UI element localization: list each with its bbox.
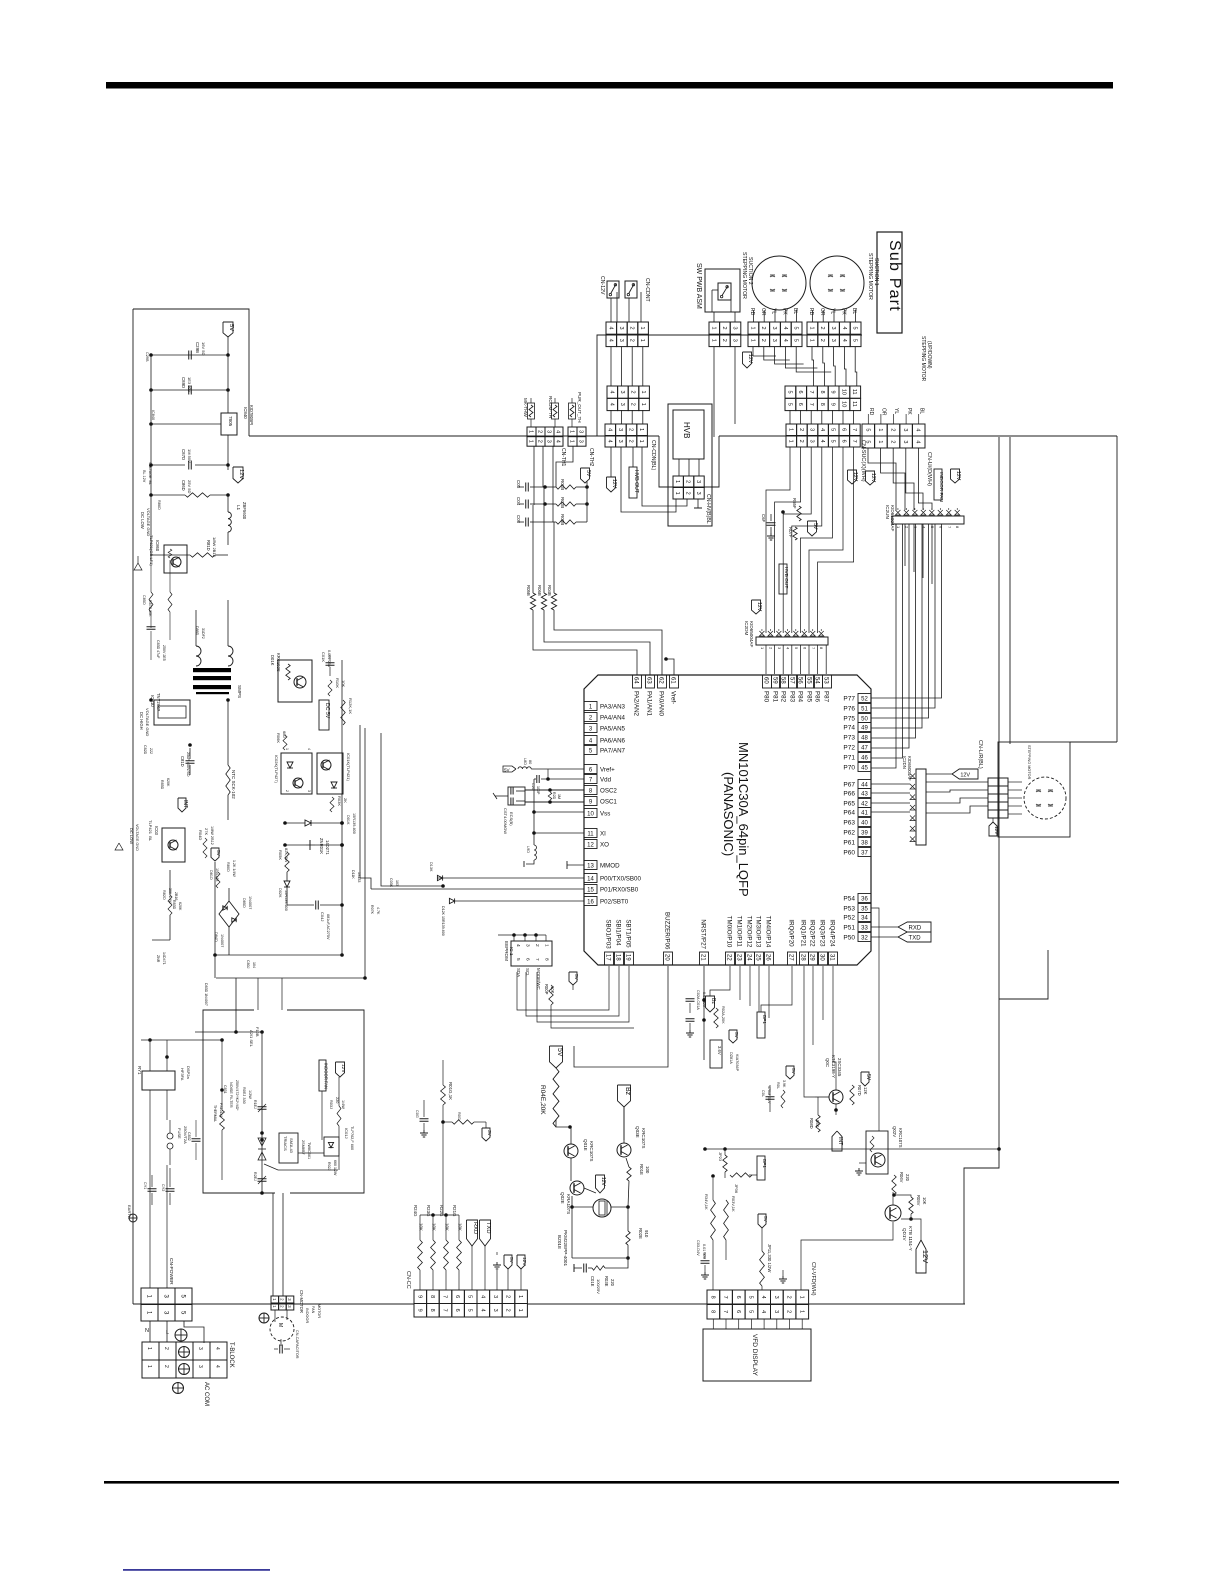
label CN-SUC xyxy=(860,440,866,482)
flag 5V cc xyxy=(504,1255,514,1290)
flag 12V ps xyxy=(233,467,244,483)
svg-text:R83D: R83D xyxy=(172,900,176,910)
switch CN-CDNT xyxy=(625,281,637,298)
svg-text:CY1: CY1 xyxy=(143,1182,147,1189)
svg-text:VOLTAGE GND: VOLTAGE GND xyxy=(146,508,151,536)
svg-text:12V: 12V xyxy=(340,1064,346,1073)
svg-text:DC HIGH: DC HIGH xyxy=(139,712,144,730)
svg-text:2: 2 xyxy=(760,339,766,342)
svg-text:2: 2 xyxy=(537,440,543,443)
res R05V xyxy=(909,1195,927,1214)
wires P6x to CN-LR xyxy=(871,782,988,813)
optocoupler IC03 xyxy=(148,820,185,862)
wire bottom long2 xyxy=(527,1303,965,1305)
svg-text:14D471: 14D471 xyxy=(162,952,166,965)
svg-text:C80J: C80J xyxy=(246,960,250,969)
svg-text:7: 7 xyxy=(442,1309,448,1312)
label CN-TH1 xyxy=(560,448,566,467)
resonator X1 xyxy=(493,787,525,834)
svg-text:ZBF5600: ZBF5600 xyxy=(242,502,247,520)
svg-text:R01E: R01E xyxy=(639,1164,644,1175)
diode D13K xyxy=(429,862,443,881)
svg-text:5V: 5V xyxy=(812,523,818,530)
svg-text:TRIACS: TRIACS xyxy=(283,1136,288,1151)
transistor Q01E xyxy=(564,1139,594,1161)
wires bottom pins xyxy=(740,966,823,1045)
connector CN-LR 5pin xyxy=(988,778,1008,818)
svg-text:A2/1 SEL: A2/1 SEL xyxy=(249,1030,254,1048)
svg-text:CN-MOTOR: CN-MOTOR xyxy=(299,1290,304,1313)
svg-text:3: 3 xyxy=(617,440,623,443)
svg-text:PA1/AN1: PA1/AN1 xyxy=(646,691,653,717)
svg-text:DC LOW: DC LOW xyxy=(129,828,134,844)
res R12K xyxy=(341,698,353,725)
op-amp U1 MCU MN101C30A body xyxy=(584,675,871,965)
svg-text:R2EJ: R2EJ xyxy=(253,1172,257,1181)
resistor bank R2xG xyxy=(413,1205,463,1290)
svg-text:IC2DN: IC2DN xyxy=(902,756,907,769)
svg-text:R04E,20K: R04E,20K xyxy=(539,1085,546,1115)
svg-text:TXD: TXD xyxy=(485,1222,491,1234)
svg-text:27: 27 xyxy=(788,954,794,961)
res R34V xyxy=(704,1178,715,1290)
wire triac opto xyxy=(298,1153,339,1170)
svg-text:3: 3 xyxy=(546,430,552,433)
svg-text:SW PWB ASM: SW PWB ASM xyxy=(695,263,702,309)
svg-text:54: 54 xyxy=(814,677,820,684)
svg-text:10: 10 xyxy=(587,812,594,818)
svg-text:SUCTION 2: SUCTION 2 xyxy=(747,257,753,285)
svg-text:11: 11 xyxy=(587,832,594,838)
svg-text:D12K 15R139-600: D12K 15R139-600 xyxy=(441,906,445,936)
svg-text:680: 680 xyxy=(282,731,287,738)
svg-text:R03V,1K: R03V,1K xyxy=(731,1196,736,1212)
svg-text:CN-POWER: CN-POWER xyxy=(168,1258,174,1285)
svg-text:47: 47 xyxy=(861,746,868,752)
svg-text:CN-CAPACITOR: CN-CAPACITOR xyxy=(295,1330,299,1359)
svg-text:4: 4 xyxy=(479,1295,485,1298)
svg-text:7: 7 xyxy=(808,403,814,406)
svg-text:1: 1 xyxy=(710,339,716,342)
MCU bottom pins 17-31 xyxy=(605,912,838,965)
svg-text:OR: OR xyxy=(881,408,887,416)
svg-text:12V: 12V xyxy=(852,472,858,482)
svg-text:IC02K(TLP427): IC02K(TLP427) xyxy=(274,755,279,783)
res R01G xyxy=(441,1060,453,1215)
svg-text:4: 4 xyxy=(307,748,311,750)
svg-text:R06K: R06K xyxy=(276,733,281,743)
svg-text:TXD: TXD xyxy=(909,935,922,941)
svg-text:100: 100 xyxy=(645,1166,650,1174)
svg-text:VOLTAGE GND: VOLTAGE GND xyxy=(145,708,150,736)
svg-text:DSP2a: DSP2a xyxy=(186,1066,191,1079)
svg-text:1: 1 xyxy=(808,327,814,330)
transformer SMPS xyxy=(193,600,242,698)
svg-text:P73: P73 xyxy=(843,735,855,742)
svg-text:38: 38 xyxy=(861,841,868,847)
svg-text:VOLTAGE GND: VOLTAGE GND xyxy=(135,824,139,851)
wire pin31 q0c xyxy=(833,966,836,1075)
svg-text:P52: P52 xyxy=(843,915,855,922)
svg-text:CN-VFD(WH): CN-VFD(WH) xyxy=(810,1262,816,1296)
cap C0G xyxy=(415,1100,429,1137)
resistor R82D xyxy=(162,888,178,915)
svg-text:3V: 3V xyxy=(486,1130,492,1137)
svg-text:FUSE: FUSE xyxy=(177,1128,182,1139)
connector CN-VFD xyxy=(707,1290,809,1319)
svg-text:PK: PK xyxy=(906,408,912,415)
svg-text:BL: BL xyxy=(792,308,798,314)
svg-text:1M 50V: 1M 50V xyxy=(187,449,192,463)
svg-text:R04B: R04B xyxy=(547,585,552,596)
earth terminals xyxy=(173,1329,190,1394)
svg-text:5: 5 xyxy=(747,1296,753,1299)
svg-text:5: 5 xyxy=(786,403,792,406)
svg-text:3: 3 xyxy=(197,1365,203,1368)
buzzer BZ01E xyxy=(557,1199,611,1266)
svg-text:BL: BL xyxy=(918,408,924,414)
wire pin28 q0c xyxy=(804,966,815,1097)
svg-text:R55F: R55F xyxy=(792,498,797,509)
cap C04J xyxy=(287,901,342,941)
wire right frame xyxy=(1070,741,1117,743)
wires acin xyxy=(150,1040,167,1288)
svg-text:37: 37 xyxy=(861,851,868,857)
flag 5V nrst xyxy=(729,1030,739,1043)
svg-text:5V: 5V xyxy=(585,470,591,477)
svg-text:5V: 5V xyxy=(504,768,511,773)
svg-text:HVB OUT: HVB OUT xyxy=(783,567,789,588)
res R05K xyxy=(278,848,289,872)
dots vfd xyxy=(703,1147,1001,1151)
driver IC2UN KID65004AF xyxy=(892,508,964,529)
svg-text:23: 23 xyxy=(736,954,742,961)
svg-text:4: 4 xyxy=(606,428,612,431)
svg-text:AC COM: AC COM xyxy=(203,1382,209,1406)
svg-text:TLP621(GB-LF1): TLP621(GB-LF1) xyxy=(149,535,154,566)
svg-text:NTC SCK-102: NTC SCK-102 xyxy=(231,770,236,799)
svg-text:0.001 25V: 0.001 25V xyxy=(327,650,331,668)
svg-text:STEPPING MOTOR: STEPPING MOTOR xyxy=(920,336,926,382)
stepper motor UP/DOWN circle xyxy=(1024,777,1066,819)
triac symbol xyxy=(258,1131,266,1160)
svg-text:4: 4 xyxy=(607,327,613,330)
label CN-CDN(BL) xyxy=(650,440,656,471)
svg-text:R02A,20K: R02A,20K xyxy=(721,1006,726,1024)
svg-text:7: 7 xyxy=(722,1296,728,1299)
svg-text:4: 4 xyxy=(608,391,614,394)
svg-text:P85: P85 xyxy=(806,691,813,703)
svg-text:2: 2 xyxy=(628,428,634,431)
wire pin14 xyxy=(437,877,584,879)
SW PWB ASM label xyxy=(695,263,702,309)
svg-text:4: 4 xyxy=(819,428,825,431)
wires stepper bundle xyxy=(753,347,857,386)
svg-text:660 1/2W: 660 1/2W xyxy=(333,1160,337,1176)
svg-text:IRQ0/P20: IRQ0/P20 xyxy=(788,919,795,947)
svg-text:C832: C832 xyxy=(187,1132,191,1141)
IC010 TNY264P xyxy=(150,693,190,725)
svg-text:R80D: R80D xyxy=(226,862,230,872)
svg-text:1: 1 xyxy=(517,1295,523,1298)
connector CN-SUC(X)(WH) xyxy=(786,424,860,447)
svg-text:6: 6 xyxy=(735,1296,741,1299)
svg-text:25: 25 xyxy=(755,954,761,961)
wire primary y1032 xyxy=(195,1030,264,1034)
gnd q02v xyxy=(855,1163,866,1175)
svg-text:24: 24 xyxy=(746,954,752,961)
svg-text:R07K: R07K xyxy=(370,905,374,915)
svg-text:12V: 12V xyxy=(994,826,999,835)
svg-text:8: 8 xyxy=(819,391,825,394)
fuse F801 xyxy=(167,1120,188,1165)
svg-text:27K: 27K xyxy=(204,828,209,835)
svg-text:P71: P71 xyxy=(843,755,855,762)
svg-text:TM1IO/P11: TM1IO/P11 xyxy=(736,916,743,948)
svg-text:3: 3 xyxy=(771,339,777,342)
wires regulator xyxy=(149,355,228,470)
resistor NTC xyxy=(226,700,230,820)
svg-text:SBO1/P03: SBO1/P03 xyxy=(605,919,612,949)
svg-text:PK: PK xyxy=(781,308,787,315)
flag 12V cdn xyxy=(607,477,618,492)
svg-text:KRC107S: KRC107S xyxy=(641,1128,646,1148)
wire primary rail xyxy=(260,1032,264,1195)
svg-text:C89D: C89D xyxy=(181,377,186,388)
wires 7pin join xyxy=(790,410,854,424)
svg-text:1: 1 xyxy=(674,492,680,495)
label CN-12V xyxy=(599,276,605,295)
fan motor xyxy=(259,1313,294,1341)
svg-text:F10B: F10B xyxy=(255,1027,260,1037)
res R02E xyxy=(626,1228,649,1245)
svg-text:2: 2 xyxy=(819,339,825,342)
svg-text:KRC102S: KRC102S xyxy=(276,653,281,672)
svg-text:P64: P64 xyxy=(843,810,855,817)
svg-text:Vss: Vss xyxy=(600,811,610,818)
svg-text:TLP762,F 660: TLP762,F 660 xyxy=(350,1126,354,1150)
svg-text:D01K: D01K xyxy=(270,655,275,666)
relay RY1 xyxy=(137,1066,191,1090)
svg-text:L9D: L9D xyxy=(526,846,530,853)
svg-text:DC LOW: DC LOW xyxy=(140,512,145,529)
svg-text:1: 1 xyxy=(639,339,645,342)
svg-text:15R139-600: 15R139-600 xyxy=(352,813,356,834)
svg-text:33: 33 xyxy=(861,926,868,932)
svg-text:KID65004AF: KID65004AF xyxy=(749,621,754,647)
svg-text:9: 9 xyxy=(830,403,836,406)
svg-text:2K: 2K xyxy=(343,798,348,803)
label CN-U/D xyxy=(926,452,932,486)
flag 5V jp11 xyxy=(758,1214,768,1228)
flag 12V fan xyxy=(951,469,962,483)
svg-text:8: 8 xyxy=(429,1309,435,1312)
svg-text:6: 6 xyxy=(797,391,803,394)
svg-text:CN-CDN(BL): CN-CDN(BL) xyxy=(650,440,656,471)
res R03K xyxy=(330,796,348,812)
svg-text:620K: 620K xyxy=(166,778,170,787)
flag 12V e1 xyxy=(848,470,859,484)
svg-text:NRST/P27: NRST/P27 xyxy=(700,919,707,949)
svg-text:2SC3345: 2SC3345 xyxy=(837,1058,842,1077)
svg-text:CN-CC: CN-CC xyxy=(405,1271,411,1289)
svg-text:2: 2 xyxy=(721,327,727,330)
connector CN stepper1 5pin xyxy=(807,308,861,347)
svg-text:2: 2 xyxy=(163,1347,169,1350)
svg-text:P63: P63 xyxy=(843,820,855,827)
regulator IC840 7805 xyxy=(221,405,254,435)
MCU top pins 64-53 xyxy=(633,675,832,717)
svg-text:2: 2 xyxy=(890,440,896,443)
label CN-HV(B)BL xyxy=(705,494,711,524)
svg-text:1: 1 xyxy=(569,430,575,433)
label earth xyxy=(127,1205,132,1219)
svg-text:STEPPING MOTOR: STEPPING MOTOR xyxy=(867,253,873,300)
svg-text:31: 31 xyxy=(829,954,835,961)
svg-text:48: 48 xyxy=(861,736,868,742)
svg-text:2: 2 xyxy=(630,391,636,394)
svg-text:10K: 10K xyxy=(550,986,555,994)
svg-text:D02K: D02K xyxy=(278,888,282,898)
svg-text:IRQ4/P24: IRQ4/P24 xyxy=(829,919,836,947)
svg-text:XI: XI xyxy=(600,831,606,838)
svg-text:1/8W 2B12: 1/8W 2B12 xyxy=(212,537,217,558)
svg-text:MK-THW: MK-THW xyxy=(523,398,528,418)
svg-text:9: 9 xyxy=(416,1295,422,1298)
wire xi xyxy=(534,832,584,834)
svg-text:6: 6 xyxy=(840,428,846,431)
svg-text:8: 8 xyxy=(709,1310,715,1313)
svg-text:IC2UN: IC2UN xyxy=(885,505,890,519)
svg-text:VOLTAGE BL: VOLTAGE BL xyxy=(148,462,152,485)
svg-text:R00P: R00P xyxy=(544,984,549,995)
svg-text:22: 22 xyxy=(726,954,732,961)
wire ac h1 xyxy=(141,1040,222,1180)
svg-text:5: 5 xyxy=(467,1295,473,1298)
svg-text:INT: INT xyxy=(837,1137,843,1146)
svg-text:1: 1 xyxy=(638,428,644,431)
svg-text:82K,3W: 82K,3W xyxy=(284,848,289,862)
svg-text:3: 3 xyxy=(809,440,815,443)
svg-text:2: 2 xyxy=(628,440,634,443)
svg-text:XO: XO xyxy=(600,842,609,849)
svg-text:N: N xyxy=(145,1328,149,1334)
label A21SEL xyxy=(249,1027,260,1048)
border top rule xyxy=(106,82,1113,89)
svg-text:PA2/AN2: PA2/AN2 xyxy=(633,691,640,717)
svg-text:7: 7 xyxy=(851,440,857,443)
HVB outer box xyxy=(668,404,712,526)
svg-text:56: 56 xyxy=(797,677,803,684)
svg-text:4: 4 xyxy=(782,339,788,342)
svg-text:KIA7036P: KIA7036P xyxy=(735,1054,739,1072)
connector CN-POWER xyxy=(141,1288,192,1321)
flag INT left xyxy=(178,798,188,812)
rail x534 xyxy=(532,779,536,845)
svg-text:5V: 5V xyxy=(865,1074,871,1081)
svg-text:CN-CDNT: CN-CDNT xyxy=(644,278,650,302)
svg-text:CN-TH2: CN-TH2 xyxy=(588,448,594,467)
svg-text:1S133: 1S133 xyxy=(357,872,361,882)
svg-text:1: 1 xyxy=(638,440,644,443)
svg-text:IC03: IC03 xyxy=(154,826,159,836)
svg-text:2: 2 xyxy=(685,492,691,495)
dots ac xyxy=(148,1038,224,1092)
svg-text:C04: C04 xyxy=(516,497,521,506)
svg-text:12V: 12V xyxy=(870,473,876,483)
svg-text:KTC3198-Y: KTC3198-Y xyxy=(831,1055,836,1078)
caps C29B C89D xyxy=(149,342,230,395)
svg-text:TM4IO/P14: TM4IO/P14 xyxy=(765,916,772,948)
svg-text:JP36: JP36 xyxy=(734,1184,739,1194)
svg-text:2: 2 xyxy=(819,327,825,330)
svg-text:R02B: R02B xyxy=(560,497,565,508)
connector mid 7pin 5-11 xyxy=(785,386,861,411)
svg-text:MN101C30A_64pin_LQFP: MN101C30A_64pin_LQFP xyxy=(736,742,751,897)
svg-text:5: 5 xyxy=(852,339,858,342)
flag 12V big xyxy=(916,1240,930,1273)
svg-text:3: 3 xyxy=(578,440,584,443)
svg-text:1: 1 xyxy=(749,327,755,330)
svg-text:STEPPING MOTOR: STEPPING MOTOR xyxy=(741,252,747,299)
svg-text:3: 3 xyxy=(830,339,836,342)
svg-text:Q02V: Q02V xyxy=(892,1126,897,1137)
svg-text:IRQ1/P21: IRQ1/P21 xyxy=(800,919,807,947)
wire osc1 xyxy=(525,800,584,804)
wire pin20 path xyxy=(574,966,668,1067)
connector CN stepper2 5pin xyxy=(748,308,802,347)
svg-text:5: 5 xyxy=(864,440,870,443)
svg-text:R03K: R03K xyxy=(337,796,342,806)
label ntc xyxy=(231,770,236,799)
svg-text:15R139-600: 15R139-600 xyxy=(284,890,288,911)
diode D01Kd xyxy=(283,813,356,834)
flag TXD cc xyxy=(480,1220,492,1290)
svg-text:R04D: R04D xyxy=(198,830,203,840)
flag 12V lr xyxy=(989,818,999,836)
svg-text:4: 4 xyxy=(608,403,614,406)
svg-text:C87D: C87D xyxy=(181,449,186,460)
svg-text:C04J: C04J xyxy=(320,912,325,921)
svg-text:7: 7 xyxy=(808,391,814,394)
svg-text:D11K: D11K xyxy=(351,870,355,879)
connector CN-12V 4pin xyxy=(606,322,648,347)
wire pin16 xyxy=(455,900,584,902)
svg-text:R82D: R82D xyxy=(162,890,166,900)
VFD display box xyxy=(703,1329,811,1381)
svg-text:3.6V: 3.6V xyxy=(717,1046,722,1055)
label IC2LM xyxy=(902,756,912,781)
cap C01K xyxy=(321,650,335,676)
svg-text:61: 61 xyxy=(670,677,676,684)
transistor Q0C xyxy=(825,1055,843,1104)
svg-text:R86D: R86D xyxy=(157,500,161,510)
svg-text:SM1L43: SM1L43 xyxy=(289,1138,294,1154)
label CN-TH2 xyxy=(588,448,594,467)
svg-text:R0G: R0G xyxy=(457,1112,461,1120)
chassis left2 xyxy=(115,843,123,850)
stair wires xyxy=(360,725,445,889)
svg-text:CN-TH1: CN-TH1 xyxy=(560,448,566,467)
svg-text:P65: P65 xyxy=(843,801,855,808)
svg-text:PA4/AN4: PA4/AN4 xyxy=(600,715,626,722)
MCU right pins 52-32 xyxy=(843,694,871,942)
svg-text:R07D: R07D xyxy=(857,1085,862,1096)
svg-text:5: 5 xyxy=(830,428,836,431)
svg-text:2: 2 xyxy=(630,403,636,406)
MCU name label xyxy=(721,742,751,897)
diode D02K xyxy=(278,872,290,911)
